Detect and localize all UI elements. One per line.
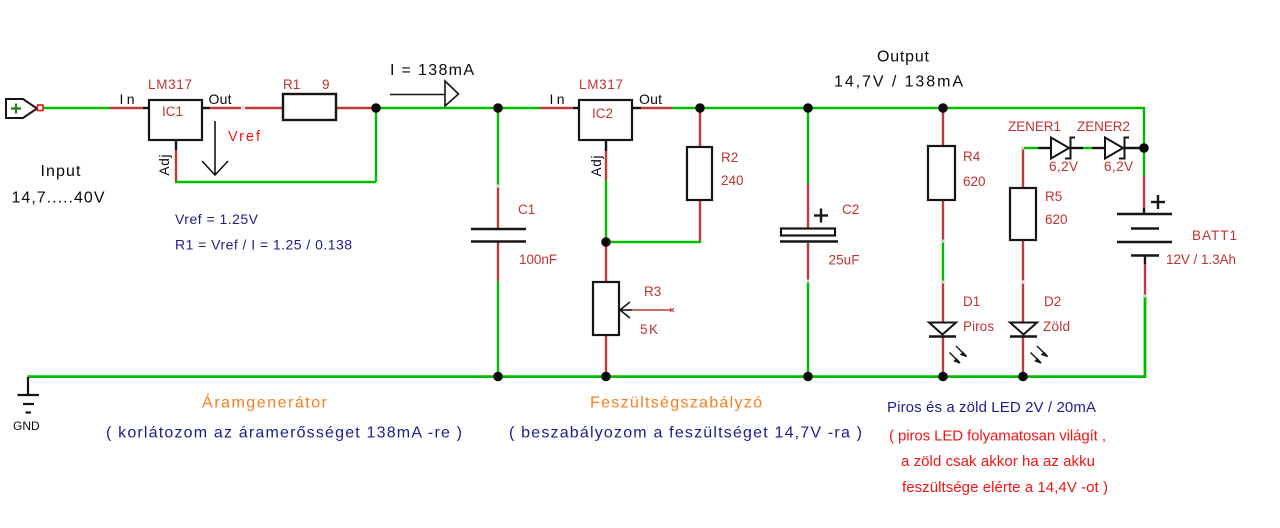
wire: C1 to ground rail (green) <box>497 281 499 377</box>
svg-text:C2: C2 <box>842 202 859 217</box>
svg-text:GND: GND <box>13 419 40 433</box>
svg-text:Áramgenerátor: Áramgenerátor <box>202 393 328 412</box>
wire: J3 down to R2 (red) <box>699 108 701 147</box>
svg-text:( korlátozom az áramerősséget: ( korlátozom az áramerősséget 138mA -re … <box>106 425 462 442</box>
svg-text:Output: Output <box>877 49 930 66</box>
svg-text:25uF: 25uF <box>829 253 860 268</box>
wire: IC1 Out pin stub (black) <box>202 107 210 109</box>
battery BATT1 <box>1117 195 1172 256</box>
wire: IC1 Out to R1 (red) <box>210 107 283 109</box>
resistor R5 <box>1010 188 1068 240</box>
node rail C1 <box>493 372 503 382</box>
current arrow I=138mA <box>390 62 474 106</box>
wire: Adj feedback vertical (green) <box>375 108 377 182</box>
svg-text:( beszabályozom a feszültséget: ( beszabályozom a feszültséget 14,7V -ra… <box>509 425 862 442</box>
wire: J6 to battery (green then red) <box>1143 148 1145 176</box>
wire: IC2 Adj (red) <box>605 151 607 180</box>
wire: to node J3 (green) <box>672 107 700 109</box>
LED D2 <box>1010 294 1070 363</box>
wire: R2 bottom to J8 (green) <box>605 241 701 243</box>
zener diode ZENER2 <box>1077 119 1133 174</box>
wire: battery + stub (black) <box>1143 208 1145 215</box>
svg-text:D2: D2 <box>1044 294 1061 309</box>
gray pin marker on IC1 out wire <box>241 106 245 110</box>
svg-text:Vref = 1.25V: Vref = 1.25V <box>175 211 259 227</box>
wire: battery to rail corner (green) <box>28 296 1146 377</box>
svg-text:9: 9 <box>322 77 330 92</box>
wire: R1 to node J1 (red) <box>336 107 376 109</box>
svg-text:Piros és a zöld LED 2V / 20mA: Piros és a zöld LED 2V / 20mA <box>887 399 1096 416</box>
wire: R3 bottom to rail (red) <box>605 335 607 377</box>
svg-text:14,7V / 138mA: 14,7V / 138mA <box>834 74 963 91</box>
zener diode ZENER1 <box>1008 119 1078 174</box>
wire: R4 to D1 (green) <box>942 241 944 283</box>
wire: R2 bottom (red) <box>699 200 701 242</box>
op-amp-regulator IC2 <box>550 77 663 177</box>
svg-text:IC2: IC2 <box>592 106 613 121</box>
wire: IC2 Out stub (black) <box>632 107 641 109</box>
node J1 <box>371 103 381 113</box>
svg-text:C1: C1 <box>518 202 535 217</box>
svg-text:14,7.....40V: 14,7.....40V <box>12 190 105 207</box>
wire: ZENER2 to J6 (black) <box>1125 147 1144 149</box>
svg-text:R1 = Vref / I = 1.25 / 0.138: R1 = Vref / I = 1.25 / 0.138 <box>175 237 352 253</box>
svg-text:D1: D1 <box>963 294 980 309</box>
svg-text:( piros LED folyamatosan világ: ( piros LED folyamatosan világít , <box>889 428 1106 445</box>
node J4 <box>803 103 813 113</box>
wire: C1 bottom (red) <box>497 242 499 281</box>
wire: zener chain start (green) <box>1022 147 1038 149</box>
wire: J4 down to C2 (green) <box>807 108 809 184</box>
wire: IC1 Adj stub (black) <box>175 140 177 150</box>
svg-text:Out: Out <box>209 91 232 107</box>
svg-text:In: In <box>120 91 135 107</box>
svg-text:R3: R3 <box>644 284 661 299</box>
svg-text:6,2V: 6,2V <box>1104 159 1133 174</box>
svg-text:Zöld: Zöld <box>1043 319 1070 334</box>
svg-text:Piros: Piros <box>963 319 994 334</box>
wire: IC2 Adj stub (black) <box>605 140 607 151</box>
svg-text:100nF: 100nF <box>519 252 557 267</box>
wire: battery bottom (red) <box>1144 264 1146 296</box>
input connector <box>6 99 43 118</box>
wire: C2 to rail (green) <box>807 281 809 377</box>
potentiometer R3 <box>593 282 674 337</box>
resistor R4 <box>928 146 986 200</box>
wire: J5 to top-right corner (green) <box>943 108 1144 148</box>
wire: zener anode down to R5 (red) <box>1022 148 1024 188</box>
svg-text:feszültsége elérte a 14,4V -ot: feszültsége elérte a 14,4V -ot ) <box>902 479 1108 496</box>
svg-text:Adj: Adj <box>589 156 604 177</box>
svg-text:ZENER1: ZENER1 <box>1008 119 1061 134</box>
wire: ZENER1 to ZENER2 (black/green) <box>1071 147 1083 149</box>
svg-text:ZENER2: ZENER2 <box>1077 119 1130 134</box>
svg-text:IC1: IC1 <box>162 104 183 119</box>
wire: input connector to IC1 In (green) <box>43 107 110 109</box>
wire: C1 top (red) <box>497 186 499 228</box>
wire: to ZENER1 (black) <box>1038 147 1051 149</box>
wire: IC1 In pin stub (black) <box>143 107 149 109</box>
wire: D1 cathode to rail (red) <box>942 337 944 377</box>
wire: J3 to J4 (green) <box>700 107 808 109</box>
wire: R4 bottom (red) <box>942 200 944 241</box>
wire: J2 down to C1 (green) <box>497 108 499 186</box>
svg-text:5K: 5K <box>640 322 658 337</box>
svg-text:6,2V: 6,2V <box>1049 159 1078 174</box>
wire: R5 bottom to D2 (red) <box>1022 240 1024 323</box>
svg-text:R5: R5 <box>1045 189 1062 204</box>
svg-text:R4: R4 <box>963 149 981 164</box>
capacitor C2 (electrolytic) <box>780 202 860 268</box>
wire: J5 down to R4 (red) <box>942 108 944 146</box>
wire: to IC2 In (red) <box>540 107 573 109</box>
ground <box>18 377 40 413</box>
svg-text:R2: R2 <box>721 150 738 165</box>
capacitor C1 <box>471 202 557 267</box>
node J5 <box>938 103 948 113</box>
svg-text:Out: Out <box>639 91 662 107</box>
svg-text:12V / 1.3Ah: 12V / 1.3Ah <box>1166 252 1236 267</box>
wire: to D1 anode (red) <box>942 283 944 323</box>
wire: J1 to J2 (green) <box>376 107 498 109</box>
svg-text:620: 620 <box>1045 212 1068 227</box>
LED D1 <box>929 294 994 363</box>
node J6 zener/battery <box>1139 143 1149 153</box>
svg-text:620: 620 <box>963 174 986 189</box>
resistor R1 <box>283 77 336 120</box>
svg-text:240: 240 <box>721 173 744 188</box>
wire: Adj feedback horizontal (green) <box>175 181 376 183</box>
wire: IC2 In stub (black) <box>573 107 579 109</box>
wire: battery - stub (black) <box>1144 256 1146 264</box>
wire: C2 top (red) <box>807 184 809 228</box>
node J2 <box>493 103 503 113</box>
svg-text:In: In <box>550 91 565 107</box>
Vref arrow <box>202 121 228 175</box>
wire: J4 to J5 (green) <box>808 107 943 109</box>
svg-text:a zöld csak akkor ha az akku: a zöld csak akkor ha az akku <box>901 453 1095 470</box>
svg-text:I = 138mA: I = 138mA <box>390 62 474 79</box>
node rail D2 <box>1018 372 1028 382</box>
svg-text:Adj: Adj <box>157 155 172 176</box>
wire: IC2 Out (red) <box>641 107 672 109</box>
gray wire segment markers <box>496 146 1146 297</box>
wire: J2 to IC2 In (green) <box>498 107 540 109</box>
node J3 <box>695 103 705 113</box>
svg-text:R1: R1 <box>283 77 300 92</box>
node rail C2 <box>803 372 813 382</box>
svg-text:LM317: LM317 <box>148 77 192 92</box>
svg-text:BATT1: BATT1 <box>1192 228 1237 243</box>
wire: IC1 Adj (red) <box>175 150 177 182</box>
op-amp-regulator IC1 <box>120 77 232 176</box>
wire: D2 cathode to rail (red) <box>1022 337 1024 377</box>
node J8 adj/R2/R3 <box>601 237 611 247</box>
wire: IC2 Adj to J8 (green) <box>605 180 607 242</box>
node rail R3 <box>601 372 611 382</box>
wire: J8 down to R3 (red) <box>605 242 607 282</box>
wire: C2 bottom (red) <box>807 243 809 281</box>
svg-text:Feszültségszabályzó: Feszültségszabályzó <box>590 395 762 412</box>
wire: to IC1 In (red) <box>110 107 143 109</box>
resistor R2 <box>687 147 744 200</box>
node rail D1 <box>938 372 948 382</box>
svg-text:LM317: LM317 <box>579 77 623 92</box>
